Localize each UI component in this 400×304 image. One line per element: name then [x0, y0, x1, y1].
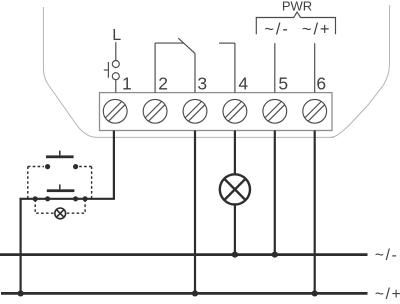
svg-text:~/-: ~/-: [375, 247, 399, 264]
svg-text:2: 2: [158, 74, 168, 94]
bus ~/-: [0, 253, 368, 256]
glow lamp dashed wire right: [66, 200, 85, 214]
wire L to switch S0: [115, 42, 117, 60]
svg-text:6: 6: [316, 74, 326, 94]
wire terminal 5 down to ~/- bus: [274, 131, 276, 255]
terminal block body: [100, 93, 333, 131]
svg-text:L: L: [112, 27, 121, 44]
junction terminal 6 to ~/+ bus: [312, 290, 318, 296]
junction glow lamp left: [33, 196, 38, 201]
wire terminal 3 up: [194, 53, 196, 92]
pushbutton S0 actuator: [107, 62, 109, 78]
PWR bracket: [256, 12, 335, 34]
pushbutton S1 stem: [59, 151, 61, 156]
terminal screw 5: [263, 99, 287, 123]
wire S0 to terminal 1: [115, 80, 117, 93]
svg-text:4: 4: [238, 74, 248, 94]
pushbutton S1 left contact: [45, 164, 50, 169]
junction pushbutton unit to ~/+ bus: [18, 290, 24, 296]
svg-text:3: 3: [197, 74, 207, 94]
junction terminal 3 to ~/+ bus: [192, 290, 198, 296]
svg-text:5: 5: [278, 74, 288, 94]
pushbutton S2 left contact: [45, 196, 50, 201]
wire terminal 5 up: [274, 43, 276, 92]
bus ~/+: [1, 292, 368, 295]
svg-text:~/+: ~/+: [302, 20, 332, 38]
wire terminal 2 up: [154, 43, 156, 93]
wire terminal 6 down to ~/+ bus: [314, 131, 316, 294]
glow lamp: [55, 208, 66, 219]
pushbutton S2 bar: [47, 189, 75, 192]
wire terminal 6 up: [314, 43, 316, 92]
lamp E1: [220, 174, 250, 204]
junction glow lamp right: [83, 196, 88, 201]
pushbutton S1 bar: [46, 155, 74, 158]
wire terminal 1 down to pushbutton unit: [21, 131, 114, 294]
wire terminal 4 down to lamp E1: [234, 131, 236, 175]
relay contact blade terminals 2-3: [178, 38, 195, 53]
pushbutton S0 lower contact: [112, 73, 119, 80]
pushbutton S1 right contact: [73, 164, 78, 169]
pushbutton S2 stem: [59, 184, 61, 189]
terminal screw 4: [223, 99, 247, 123]
terminal screw 2: [143, 99, 167, 123]
junction terminal 5 to ~/- bus: [272, 252, 278, 258]
glow lamp dashed wire left: [35, 200, 54, 214]
wire lamp E1 to ~/- bus: [234, 204, 236, 254]
device housing outline bottom: [98, 136, 335, 138]
relay contact 2 open end: [219, 42, 235, 44]
terminal screw 1: [103, 99, 127, 123]
wire terminal 4 up: [234, 43, 236, 93]
wire terminal 3 down to ~/+ bus: [194, 131, 196, 294]
pushbutton S2 right contact: [73, 196, 78, 201]
terminal screw 6: [303, 99, 327, 123]
junction lamp E1 to ~/- bus: [232, 252, 238, 258]
svg-text:~/+: ~/+: [375, 286, 400, 303]
svg-text:~/-: ~/-: [264, 20, 289, 38]
pushbutton unit dashed enclosure: [28, 167, 92, 199]
wire contact fixed side: [155, 42, 184, 44]
terminal screw 3: [183, 99, 207, 123]
svg-text:1: 1: [122, 74, 132, 94]
device housing outline right: [330, 5, 390, 137]
pushbutton S0 upper contact: [112, 61, 119, 68]
device housing outline left: [43, 7, 98, 137]
